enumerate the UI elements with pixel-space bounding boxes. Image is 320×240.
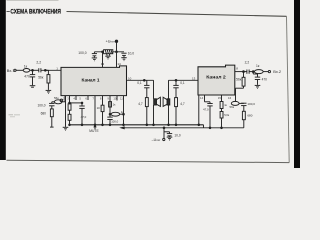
wire input1 to R bbox=[16, 69, 23, 71]
resistor 680 (IC2) bbox=[242, 111, 245, 128]
svg-text:+Uпит: +Uпит bbox=[106, 40, 116, 44]
svg-text:100,0: 100,0 bbox=[247, 102, 255, 106]
svg-text:10,0: 10,0 bbox=[128, 52, 135, 56]
terminal -Uпит bbox=[163, 128, 165, 141]
speaker ch2 bbox=[163, 80, 170, 125]
MUTE arrow bbox=[94, 125, 96, 129]
wire pin4 column bbox=[69, 96, 71, 104]
ground under 10.0 bbox=[121, 58, 126, 61]
svg-text:4,7: 4,7 bbox=[138, 102, 143, 106]
supply terminal +Uпит bbox=[115, 40, 117, 42]
wire to bus bbox=[69, 120, 71, 125]
svg-text:56к: 56к bbox=[230, 105, 235, 109]
resistor R pin4 upper bbox=[68, 104, 71, 110]
capacitor 470 (input 1 shunt) bbox=[30, 70, 35, 85]
wire pin6 stub bbox=[87, 96, 89, 100]
capacitor 100.0 (IC1 left) bbox=[49, 102, 54, 109]
ground at pin3 bottom bbox=[63, 127, 69, 130]
capacitor 0.1 (ch1 zobel) bbox=[144, 80, 149, 97]
svg-text:16: 16 bbox=[228, 96, 232, 100]
faint top edge bbox=[7, 0, 59, 1]
capacitor 47.0 (IC2 pin14) bbox=[205, 95, 213, 128]
ground under bottom 10.0 bbox=[167, 137, 173, 140]
wire middle to IC2 input bbox=[169, 79, 199, 81]
wire to oval bbox=[249, 71, 254, 73]
svg-text:0,1: 0,1 bbox=[180, 81, 185, 85]
svg-text:2,2: 2,2 bbox=[36, 60, 41, 64]
resistor R pin4 lower bbox=[68, 114, 71, 120]
wire pin3 to ground bus bbox=[65, 96, 67, 127]
pin number row IC1 bbox=[63, 96, 123, 100]
ground under 56к bbox=[46, 90, 52, 93]
svg-text:СХЕМА ВКЛЮЧЕНИЯ: СХЕМА ВКЛЮЧЕНИЯ bbox=[10, 9, 61, 16]
wire IC2 pin8 output bbox=[235, 71, 247, 73]
svg-text:13: 13 bbox=[192, 76, 196, 80]
capacitor 10.0 (supply right) bbox=[121, 53, 126, 57]
wire oval to terminal bbox=[263, 71, 268, 73]
node rail junctions bbox=[102, 51, 118, 53]
capacitor 100.0 (IC2) bbox=[241, 103, 246, 111]
ground under 470 bbox=[30, 86, 36, 88]
svg-text:1к: 1к bbox=[24, 65, 28, 69]
svg-text:10: 10 bbox=[113, 96, 117, 100]
svg-text:Вх.2: Вх.2 bbox=[273, 69, 281, 74]
wire oval to pin10 line bbox=[120, 113, 124, 115]
node dot ch2 zobel bbox=[175, 79, 177, 81]
svg-text:0,1: 0,1 bbox=[137, 81, 142, 85]
wire pin4 to cap47 bbox=[70, 102, 83, 104]
svg-text:1н: 1н bbox=[121, 110, 125, 114]
title rule line bbox=[67, 12, 287, 17]
wire pin10 column bbox=[123, 96, 125, 125]
svg-text:47,0: 47,0 bbox=[203, 108, 209, 112]
fuse box on rail bbox=[104, 50, 113, 56]
node bus junction dots bbox=[69, 124, 223, 129]
resistor 56к (input 1 shunt) bbox=[45, 70, 50, 90]
right frame line bbox=[287, 16, 290, 162]
wire mute bus B bbox=[124, 127, 244, 129]
capacitor 47.0 (pin5) bbox=[79, 102, 84, 125]
svg-text:10: 10 bbox=[97, 106, 101, 110]
wire to bus bbox=[221, 118, 223, 128]
capacitor 100.0 (supply left) bbox=[92, 52, 97, 58]
svg-text:47,0: 47,0 bbox=[81, 115, 87, 119]
resistor 1к (input 1) bbox=[23, 69, 30, 73]
svg-text:680: 680 bbox=[247, 114, 252, 118]
capacitor 2.2 (input 2 series) bbox=[247, 70, 249, 74]
svg-text:10,0: 10,0 bbox=[174, 133, 180, 137]
node junction J1 bbox=[32, 69, 34, 71]
wire C2.2 to IC1 pin1 bbox=[41, 69, 61, 71]
speaker ch1 bbox=[154, 80, 161, 125]
node Вх.1 input terminal bbox=[14, 69, 16, 71]
node dot J2' bbox=[243, 71, 245, 73]
svg-text:5,6к: 5,6к bbox=[224, 113, 230, 117]
wire between bbox=[221, 109, 223, 112]
capacitor 10.0 (bottom) bbox=[164, 132, 172, 137]
resistor 56к (input 2 shunt) bbox=[236, 72, 246, 102]
node arrowhead bus B bbox=[121, 127, 124, 129]
node dot pin8 bbox=[109, 113, 111, 115]
wire pin7 column with resistor bbox=[101, 96, 104, 125]
resistor oval 56к (IC1) bbox=[54, 96, 65, 104]
resistor IC2 upper bbox=[220, 102, 223, 109]
resistor small on pin8 bbox=[109, 102, 112, 107]
svg-text:2,2: 2,2 bbox=[245, 60, 250, 64]
wire oval to cap bbox=[239, 102, 244, 104]
svg-text:56к: 56к bbox=[236, 78, 242, 82]
title СХЕМА ВКЛЮЧЕНИЯ bbox=[7, 9, 62, 16]
wire IC2 pin15 column bbox=[221, 95, 223, 102]
svg-text:56к: 56к bbox=[54, 96, 59, 100]
wire pin14 supply bbox=[116, 41, 118, 67]
wire bus connector bbox=[203, 125, 205, 128]
svg-text:MUTE: MUTE bbox=[89, 129, 99, 133]
svg-text:11: 11 bbox=[120, 96, 123, 100]
svg-text:13: 13 bbox=[101, 62, 105, 66]
wire between resistors bbox=[69, 110, 71, 114]
node Вх.2 input terminal bbox=[268, 71, 270, 73]
svg-text:100,0: 100,0 bbox=[111, 120, 118, 124]
ground under fuse box bbox=[105, 56, 110, 59]
resistor oval 56к (IC2) bbox=[231, 101, 239, 105]
svg-text:56к: 56к bbox=[38, 76, 44, 80]
resistor oval (pin8 to pin10) bbox=[111, 112, 120, 116]
bleed-through smudge left margin bbox=[9, 114, 21, 117]
wire ground bus A bbox=[70, 124, 204, 126]
svg-text:–Uпит: –Uпит bbox=[152, 138, 162, 142]
capacitor 0.1 (ch2 zobel) bbox=[173, 80, 178, 97]
node dot J1' bbox=[252, 71, 254, 73]
svg-text:470: 470 bbox=[24, 75, 30, 79]
svg-text:10: 10 bbox=[128, 76, 132, 80]
wire IC2 left pin column bbox=[198, 95, 200, 125]
capacitor 2.2 (input 1 series) bbox=[39, 68, 41, 72]
resistor 680 (IC1 left) bbox=[50, 109, 54, 127]
svg-text:14: 14 bbox=[117, 62, 121, 66]
node junction J2 bbox=[44, 69, 46, 71]
wire pin9 stub bbox=[116, 96, 118, 101]
ground under 470 input2 bbox=[255, 85, 261, 88]
svg-text:Канал 2: Канал 2 bbox=[206, 75, 226, 81]
ground under 100.0 bbox=[92, 58, 97, 61]
wire pin13 bbox=[102, 52, 104, 68]
bottom frame line bbox=[7, 160, 290, 162]
op-amp U1 Канал 1 bbox=[61, 66, 127, 96]
svg-text:100,0: 100,0 bbox=[78, 51, 86, 55]
svg-text:Вх.1: Вх.1 bbox=[7, 68, 15, 73]
resistor 4.7 (ch2 zobel) bbox=[175, 98, 178, 125]
right black scan bar bbox=[294, 0, 300, 168]
capacitor 100.0 (pin8 branch) bbox=[107, 114, 112, 125]
left black scan bar bbox=[0, 0, 6, 160]
wire R to C bbox=[30, 69, 39, 71]
wire supply rail bbox=[94, 51, 124, 53]
resistor 1к (input 2) bbox=[254, 70, 263, 74]
wire pin8 column bbox=[109, 96, 111, 115]
node terminal on pin 2 bbox=[60, 99, 63, 102]
node dot bbox=[123, 113, 125, 115]
svg-text:470: 470 bbox=[262, 78, 268, 82]
capacitor 470 (input 2 shunt) bbox=[253, 72, 260, 85]
svg-text:Канал 1: Канал 1 bbox=[82, 77, 100, 83]
resistor IC2 lower bbox=[220, 112, 223, 119]
wire pin5 stub bbox=[75, 96, 77, 100]
wire pin MUTE column bbox=[94, 96, 96, 125]
wire IC1 output to middle bbox=[127, 79, 154, 81]
node dot ch1 zobel bbox=[143, 79, 145, 81]
svg-text:1к: 1к bbox=[256, 64, 260, 68]
svg-text:15: 15 bbox=[218, 96, 222, 100]
op-amp U2 Канал 2 bbox=[198, 65, 235, 95]
svg-text:680: 680 bbox=[41, 111, 47, 115]
node dot pin4 bbox=[69, 102, 71, 104]
svg-text:14: 14 bbox=[200, 96, 204, 100]
svg-text:100,0: 100,0 bbox=[38, 103, 46, 107]
resistor 4.7 (ch1 zobel) bbox=[145, 98, 148, 125]
pin number row IC2 bbox=[200, 96, 232, 100]
svg-text:4,7: 4,7 bbox=[180, 102, 185, 106]
